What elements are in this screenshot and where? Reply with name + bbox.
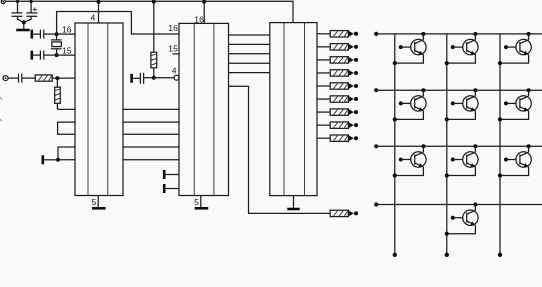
wire U3 pin stub 8	[317, 124, 330, 126]
wire edge artifact b	[0, 119, 2, 121]
wire J2 to C5	[8, 77, 18, 79]
resistor R1	[35, 75, 52, 81]
wire edge artifact a	[0, 97, 2, 100]
wire node16 up/over to U2 pin16	[57, 12, 179, 35]
terminal U2 left pin a	[164, 170, 179, 179]
transistor Q8	[445, 144, 478, 177]
node rail-U2	[202, 0, 206, 4]
transistor Q5	[445, 88, 478, 121]
node loopB junction	[56, 158, 60, 162]
node XTAL-15	[55, 53, 59, 57]
wire U2 to bottom pin resistor (long)	[229, 86, 331, 213]
wire U1-U2 bus 1	[123, 108, 179, 110]
svg-text:15: 15	[62, 45, 72, 55]
node rail-C2	[30, 0, 33, 3]
terminal T1	[41, 155, 44, 164]
wire U3 pin stub 7	[317, 111, 330, 113]
ground U1 pin5	[92, 196, 106, 209]
resistor R10	[330, 109, 358, 115]
wire C5 to R1	[22, 77, 35, 79]
terminal U2 left pin b	[164, 184, 179, 193]
resistor R9	[330, 96, 358, 102]
wire U1-U2 bus 3	[123, 133, 179, 135]
wire U1-U2 bus 4	[123, 146, 179, 148]
wire matrix row rail 4	[376, 204, 542, 206]
wire U2-U3 bus 3	[229, 53, 270, 55]
node C6/R3 junction	[152, 76, 156, 80]
wire XTAL16 to U1 pin16	[57, 33, 75, 35]
op-amp U2 (IC box 2)	[179, 23, 229, 195]
resistor R7	[330, 70, 358, 76]
resistor R12	[330, 135, 358, 141]
transistor Q2	[445, 32, 478, 65]
wire matrix column 2	[446, 34, 448, 255]
wire U3 pin stub 6	[317, 98, 330, 100]
capacitor C6	[132, 73, 154, 84]
svg-text:16: 16	[62, 25, 72, 35]
capacitor C4 (XTAL bottom)	[32, 51, 57, 60]
wire matrix row rail 1	[376, 33, 542, 35]
transistor Q6	[498, 88, 531, 121]
wire U3 pin stub 9	[317, 137, 330, 139]
wire matrix row rail 3	[376, 145, 542, 147]
wire U3 pin stub 3	[317, 59, 330, 61]
wire top supply rail	[5, 1, 293, 22]
op-amp U1 (IC box 1)	[75, 23, 123, 196]
wire U1-U2 bus 5	[123, 159, 179, 161]
wire U2-U3 bus 1	[229, 34, 270, 36]
node rail-U1.4	[97, 0, 101, 4]
transistor Q3	[498, 32, 531, 65]
capacitor C5	[19, 74, 22, 83]
ground (top-left)	[16, 22, 29, 30]
wire U1-U2 bus 2	[123, 121, 179, 123]
ground U2 pin5	[195, 196, 209, 209]
wire to U2 pin4 bubble	[154, 77, 174, 79]
connector J1 (top-left)	[1, 0, 5, 4]
wire U2-U3 bus 2	[229, 43, 270, 45]
wire U1 jumper loop A	[58, 122, 75, 134]
wire U2-U3 bus 5	[229, 72, 270, 74]
transistor Q1	[393, 32, 426, 65]
ground U3 bottom pin	[287, 196, 299, 209]
node column 2 bottom terminal	[445, 253, 449, 257]
crystal Y1	[51, 34, 62, 55]
svg-text:4: 4	[172, 65, 177, 75]
svg-text:5: 5	[194, 197, 199, 207]
wire U3 pin stub 5	[317, 85, 330, 87]
transistor Q9	[498, 144, 531, 177]
node rail-C1	[16, 0, 19, 3]
wire loopB to terminal	[43, 159, 58, 161]
node column 1 bottom terminal	[393, 253, 397, 257]
wire U1 jumper loop B	[58, 147, 75, 160]
wire U3 pin stub 4	[317, 72, 330, 74]
wire rail to R3	[153, 1, 155, 52]
wire U3 pin stub 2	[317, 46, 330, 48]
node C1/C2 junction	[22, 20, 26, 24]
resistor R13	[330, 210, 358, 216]
resistor R11	[330, 122, 358, 128]
node rail2 left terminal	[374, 88, 378, 92]
svg-text:16: 16	[168, 23, 178, 33]
node column 3 bottom terminal	[498, 253, 502, 257]
connector J2 (left input)	[3, 76, 8, 81]
pin 4 bubble U2	[174, 75, 179, 80]
node XTAL-16	[55, 32, 59, 36]
capacitor C3 (XTAL top)	[32, 30, 57, 39]
resistor R6	[330, 57, 358, 63]
wire U2 pin15 stub	[172, 53, 179, 55]
transistor Q4	[393, 88, 426, 121]
wire XTAL15 to U1 pin15	[57, 54, 75, 56]
node R1/R2 junction	[55, 76, 59, 80]
svg-text:5: 5	[92, 197, 97, 207]
wire matrix column 1	[394, 34, 396, 255]
wire matrix row rail 2	[376, 89, 542, 91]
node rail3 left terminal	[374, 144, 378, 148]
wire R1 to U1	[52, 77, 75, 79]
resistor R3 (vertical)	[151, 52, 157, 77]
resistor R5	[330, 44, 358, 50]
svg-text:16: 16	[194, 14, 204, 24]
transistor Q10	[445, 203, 478, 236]
op-amp U3 (IC box 3)	[270, 23, 317, 196]
resistor R4	[330, 31, 358, 37]
transistor Q7	[393, 144, 426, 177]
wire U2 top pin to rail	[203, 1, 205, 23]
node rail1 left terminal	[374, 32, 378, 36]
wire U1 pin4 to rail	[98, 1, 100, 23]
resistor R2 (vertical)	[55, 78, 61, 109]
svg-text:4: 4	[91, 12, 96, 22]
wire U3 pin stub 1	[317, 33, 330, 35]
wire matrix column 3	[499, 34, 501, 255]
wire R2 to U1 pin	[57, 108, 75, 110]
capacitor C1	[12, 1, 24, 22]
node resistor drop from rail	[152, 0, 156, 4]
node rail4 left terminal	[374, 202, 378, 206]
wire U2-U3 bus 4	[229, 62, 270, 64]
resistor R8	[330, 83, 358, 89]
svg-text:15: 15	[168, 44, 178, 54]
capacitor C2 (+)	[24, 1, 37, 22]
